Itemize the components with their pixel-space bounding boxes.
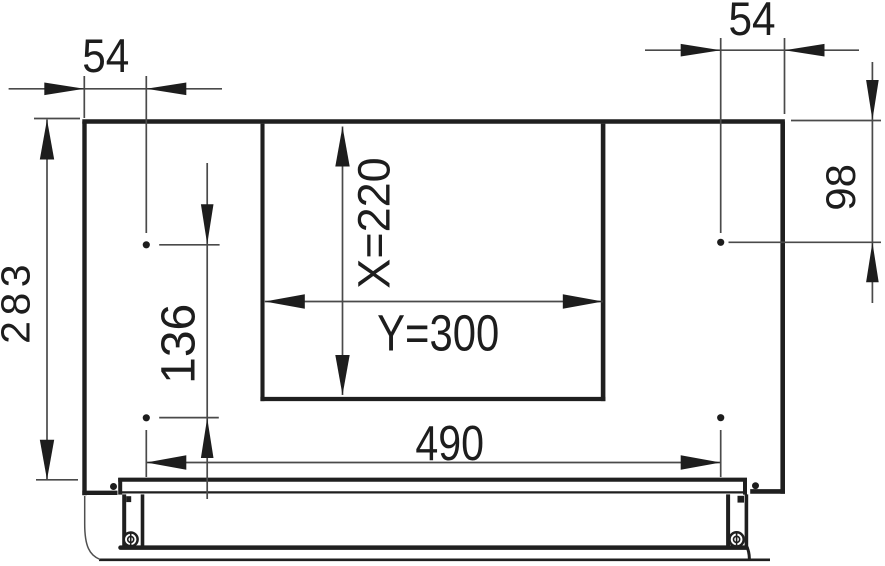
dim 54 top-left: arrows — [44, 83, 84, 96]
svg-text:54: 54 — [728, 0, 775, 46]
rivet dot right — [752, 482, 759, 489]
dim 98 right: extension lines — [791, 120, 881, 122]
dim 283 left: arrows — [40, 120, 54, 160]
right wheel — [730, 532, 744, 546]
svg-text:54: 54 — [82, 31, 129, 83]
dim Y=300: arrows — [265, 294, 305, 308]
bottom edge line — [99, 558, 770, 561]
svg-text:283: 283 — [0, 259, 39, 344]
dim 136: extension lines — [159, 244, 219, 246]
hood bottom rail — [121, 545, 747, 550]
dim 136: arrows — [201, 204, 214, 244]
rivet dot left — [110, 483, 117, 490]
left flare curve — [85, 496, 100, 559]
panel outline — [82, 122, 785, 496]
centerline left — [145, 76, 147, 477]
dim 98 right: arrows — [866, 80, 879, 120]
dim 136 left: line — [206, 163, 208, 499]
svg-text:490: 490 — [415, 416, 484, 471]
svg-text:136: 136 — [153, 304, 206, 384]
dim 54 top-right: extension line — [784, 38, 786, 114]
dim 54 top-left: extension line — [83, 76, 85, 118]
dim 54 top-right: arrows — [681, 44, 721, 57]
svg-text:Y=300: Y=300 — [377, 305, 499, 362]
svg-text:98: 98 — [817, 164, 864, 211]
hole dot top-right — [717, 239, 724, 246]
dim 490: arrows — [146, 455, 186, 469]
centerline right — [720, 38, 722, 477]
dim 54 top-left: line — [9, 88, 222, 90]
hole dot bottom-right — [717, 414, 724, 421]
dim 283 left: line — [46, 120, 48, 480]
right hinge bracket — [728, 494, 749, 559]
dim 54 top-right: line — [645, 49, 859, 51]
dim Y=300: line — [265, 301, 603, 303]
dim 98 right: line — [871, 62, 873, 303]
left wheel — [124, 533, 138, 547]
dim 283 left: extension lines — [34, 118, 80, 120]
dim X=220: arrows — [335, 127, 349, 167]
cutout rectangle — [260, 124, 605, 402]
left hinge bracket — [124, 494, 142, 546]
hood top rail — [118, 478, 747, 495]
dim X=220: line — [342, 127, 344, 396]
hole dot bottom-left — [143, 414, 150, 421]
dim 490: line — [146, 462, 720, 464]
svg-text:X=220: X=220 — [349, 157, 400, 288]
hole dot top-left — [143, 241, 150, 248]
